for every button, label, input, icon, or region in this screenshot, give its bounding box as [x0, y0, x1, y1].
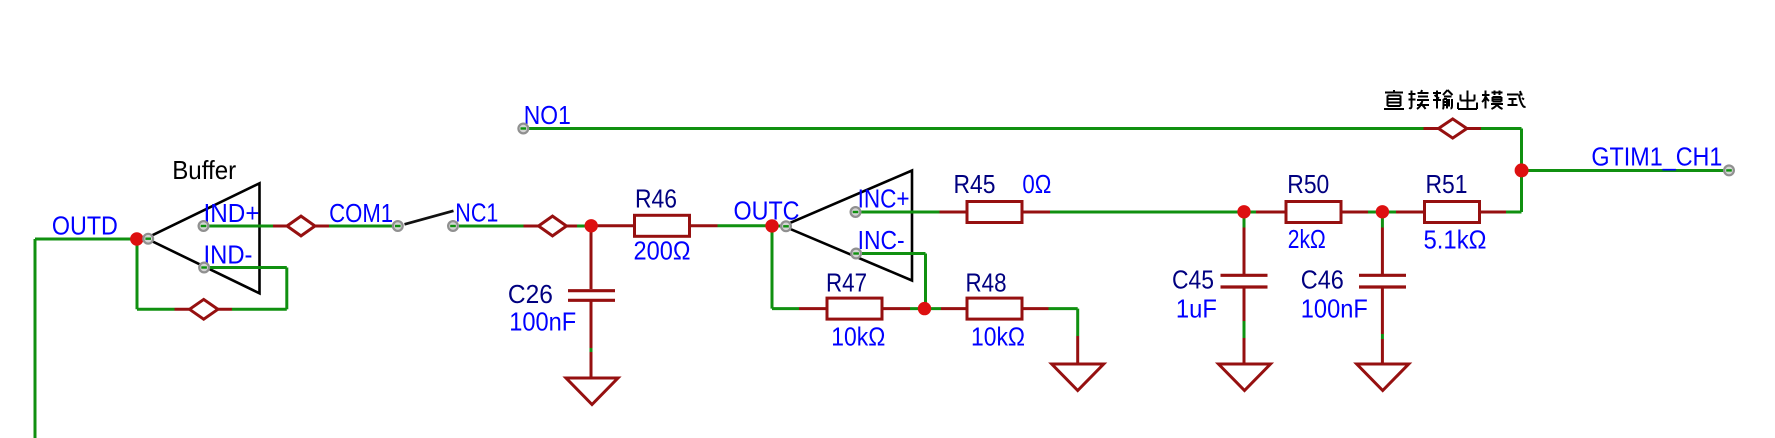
resistor R50 pins — [1256, 211, 1368, 214]
resistor R46 body — [635, 215, 690, 236]
resistor R45 body — [967, 202, 1022, 223]
pin circle buffer output — [143, 234, 153, 244]
wire buffer feedback bottom right segment — [232, 308, 287, 311]
wire OUTD horizontal — [35, 238, 137, 241]
pin circle IND- — [199, 263, 209, 273]
wire NC1 to diamond — [459, 225, 524, 228]
resistor R51 body — [1425, 202, 1480, 223]
wire diamond to COM1 — [329, 225, 392, 228]
ground symbol below R48 — [1052, 364, 1104, 391]
capacitor C45 pin top — [1243, 228, 1246, 275]
ground pin below C45 — [1243, 338, 1246, 364]
ground pin below C46 — [1381, 339, 1384, 364]
svg-text:C45: C45 — [1172, 265, 1214, 295]
junction OUTD — [130, 232, 143, 245]
resistor R48 body — [967, 298, 1022, 319]
svg-text:OUTD: OUTD — [52, 210, 118, 240]
net flag diamond on buffer feedback — [175, 299, 233, 319]
pin circle INC+ — [851, 207, 861, 217]
wire IND+ to COM1 — [204, 225, 273, 228]
pin circle NO1 — [518, 124, 528, 134]
op-amp U_buffer triangle — [146, 183, 260, 293]
wire to IND- pin — [204, 266, 287, 269]
svg-text:10kΩ: 10kΩ — [831, 322, 885, 352]
svg-text:GTIM1_CH1: GTIM1_CH1 — [1591, 142, 1722, 172]
junction NO1-R51-GTIM — [1515, 163, 1529, 177]
wire INC- horizontal — [856, 252, 926, 255]
resistor R51 pins — [1396, 211, 1506, 214]
char zhi — [1384, 90, 1404, 109]
wire OUTC feedback vertical — [771, 226, 774, 309]
char shu — [1433, 90, 1453, 109]
resistor R46 pins — [591, 224, 718, 227]
switch blade COM1-NC1 — [405, 211, 454, 225]
svg-text:100nF: 100nF — [1301, 294, 1368, 324]
svg-text:0Ω: 0Ω — [1022, 169, 1051, 199]
resistor R47 pins — [799, 307, 910, 310]
char shi — [1507, 91, 1526, 107]
char chu — [1458, 91, 1477, 110]
svg-text:R45: R45 — [954, 169, 996, 199]
junction R47-R48 — [918, 302, 931, 315]
svg-text:200Ω: 200Ω — [634, 236, 691, 266]
svg-text:INC+: INC+ — [858, 184, 910, 214]
pin circle INC- — [851, 249, 861, 259]
capacitor C45 wire from junction — [1243, 212, 1246, 228]
svg-text:1uF: 1uF — [1176, 294, 1217, 324]
wire INC+ to R45 — [856, 211, 940, 214]
wire C45 to ground — [1243, 321, 1246, 338]
svg-text:R48: R48 — [966, 267, 1007, 297]
wire buffer output stub — [137, 238, 148, 241]
svg-text:COM1: COM1 — [329, 198, 393, 228]
wire R50 to junction C46 — [1368, 211, 1396, 214]
pin circle IND+ — [199, 221, 209, 231]
wire C26 to ground — [590, 348, 593, 352]
wire OUTC feedback to R47 — [772, 307, 799, 310]
op-amp U2 triangle — [783, 171, 912, 281]
resistor R45 pins — [940, 211, 1051, 214]
capacitor C26 pin bottom — [590, 302, 593, 349]
wire R47 to junction — [910, 307, 941, 310]
wire R45 to junction C45 — [1050, 211, 1256, 214]
svg-text:IND-: IND- — [204, 240, 253, 270]
ground pin below C26 — [590, 352, 593, 378]
svg-text:2kΩ: 2kΩ — [1288, 224, 1326, 254]
svg-text:NO1: NO1 — [524, 100, 571, 130]
svg-text:R51: R51 — [1426, 169, 1468, 199]
resistor R47 body — [827, 298, 882, 319]
net flag diamond direct-output-mode — [1424, 119, 1482, 138]
ground pin below R48 — [1076, 336, 1079, 364]
pin circle COM1 — [393, 221, 403, 231]
net flag diamond on IND+ wire — [273, 216, 329, 236]
svg-text:INC-: INC- — [858, 225, 905, 255]
wire R51 to vertical — [1506, 211, 1522, 214]
wire vertical GTIM column — [1520, 129, 1523, 213]
pin circle GTIM1_CH1 — [1724, 166, 1734, 176]
char jie — [1409, 90, 1430, 109]
svg-text:IND+: IND+ — [204, 198, 260, 228]
wire R46 to OUTC — [718, 224, 773, 227]
junction OUTC — [765, 219, 778, 232]
capacitor C46 pin bottom — [1381, 289, 1384, 335]
wire NO1 right segment — [1481, 127, 1522, 130]
ground symbol below C46 — [1357, 364, 1409, 391]
svg-text:C46: C46 — [1301, 265, 1344, 295]
svg-text:5.1kΩ: 5.1kΩ — [1424, 225, 1487, 255]
svg-text:C26: C26 — [508, 279, 553, 309]
net flag diamond on NC1 wire — [524, 216, 578, 236]
svg-text:10kΩ: 10kΩ — [971, 322, 1025, 352]
capacitor C46 wire from junction — [1381, 212, 1384, 228]
wire GTIM1_CH1 — [1522, 169, 1730, 172]
wire op-amp2 output stub — [772, 225, 786, 228]
wire NO1 horizontal — [524, 127, 1424, 130]
svg-text:Buffer: Buffer — [172, 155, 236, 185]
label direct output mode (Chinese) — [1384, 90, 1526, 109]
svg-text:100nF: 100nF — [509, 307, 576, 337]
capacitor C46 plates — [1359, 275, 1406, 287]
pin circle NC1 — [448, 221, 458, 231]
wire OUTD vertical to bottom edge — [34, 239, 37, 438]
svg-text:NC1: NC1 — [455, 198, 498, 228]
wire buffer feedback vertical right — [285, 268, 288, 310]
ground symbol below C45 — [1219, 364, 1271, 391]
junction C26 top — [585, 219, 598, 232]
capacitor C46 pin top — [1381, 228, 1384, 275]
wire R48 to ground corner — [1049, 309, 1078, 336]
pin circle op2 output — [781, 221, 791, 231]
svg-text:R50: R50 — [1287, 169, 1329, 199]
wire buffer feedback bottom left segment — [137, 308, 175, 311]
wire diamond to junction C26 — [577, 225, 591, 228]
resistor R48 pins — [941, 307, 1049, 310]
junction R50-R51-C46 — [1376, 205, 1389, 218]
wire buffer feedback vertical left — [136, 239, 139, 309]
capacitor C45 plates — [1221, 275, 1268, 287]
wire C46 to ground — [1381, 334, 1384, 339]
capacitor C26 plates — [568, 291, 615, 301]
junction R45-R50-C45 — [1237, 205, 1250, 218]
svg-text:R47: R47 — [826, 267, 867, 297]
svg-text:R46: R46 — [635, 184, 677, 214]
ground symbol below C26 — [566, 378, 618, 405]
svg-text:OUTC: OUTC — [734, 196, 800, 226]
wire INC- vertical to junction — [924, 254, 927, 309]
char mo — [1482, 91, 1503, 110]
resistor R50 body — [1286, 202, 1341, 223]
capacitor C45 pin bottom — [1243, 289, 1246, 322]
capacitor C26 pin top — [590, 226, 593, 289]
